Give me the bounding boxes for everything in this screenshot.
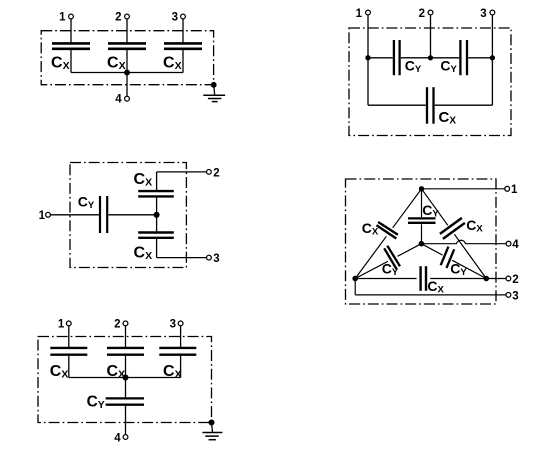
terminal 4 fig4 <box>506 241 511 246</box>
svg-text:3: 3 <box>172 11 178 23</box>
capacitor C_X left edge fig4 <box>378 222 398 235</box>
terminal 1 fig5 <box>66 321 71 326</box>
wire node to terminal 4 <box>126 73 128 97</box>
wire terminal1 down to node1 fig2 <box>367 15 369 58</box>
ground fig5 <box>202 432 222 434</box>
svg-text:CX: CX <box>107 54 126 72</box>
terminal 2 fig2 <box>428 10 433 15</box>
wire apex to C_X left (triangle edge) <box>393 189 422 228</box>
svg-text:CX: CX <box>439 109 457 127</box>
wire C_Y top to center node <box>421 224 423 244</box>
capacitor C_X fig2 <box>426 87 428 124</box>
apex node fig4 <box>419 187 423 191</box>
svg-text:CY: CY <box>87 394 105 412</box>
wire C1 bottom to bus <box>70 49 72 73</box>
terminal 4 fig5 <box>123 435 128 440</box>
svg-text:CY: CY <box>450 261 467 279</box>
svg-text:2: 2 <box>213 167 219 179</box>
wire apex to C_Y top <box>421 189 423 217</box>
wire apex to C_X right (triangle edge) <box>422 189 448 226</box>
svg-text:CY: CY <box>440 58 457 76</box>
wire C_X top up fig3 <box>156 172 158 191</box>
wire terminal1 to C_Y fig3 <box>51 214 100 216</box>
bottom-right vertex node fig4 <box>484 276 488 280</box>
svg-text:2: 2 <box>419 8 425 20</box>
capacitor C_X (left, fig1) <box>52 42 90 45</box>
wire node3 down fig2 <box>491 58 493 105</box>
wire center node to terminal 4 with hop fig4 <box>421 240 506 243</box>
wire terminal3 to C3 top <box>182 19 184 43</box>
wire C_Y right to bottom-right vertex fig4 <box>452 260 486 278</box>
terminal 2 fig5 <box>123 321 128 326</box>
wire node1 to C_Y left fig2 <box>368 57 393 59</box>
capacitor C_Y right fig2 <box>459 40 461 75</box>
terminal 1 fig4 <box>505 186 510 191</box>
junction node fig5 <box>123 375 128 380</box>
capacitor C_X bottom fig3 <box>138 231 174 233</box>
terminal 1 <box>69 14 74 19</box>
svg-text:CX: CX <box>163 54 182 72</box>
wire terminal1 to C1 top <box>70 19 72 43</box>
svg-text:1: 1 <box>511 184 518 196</box>
svg-text:CY: CY <box>405 58 422 76</box>
wire C_X right to bottom-right vertex <box>454 234 486 278</box>
terminal 3 fig2 <box>490 10 495 15</box>
capacitor C_X top fig3 <box>138 190 174 192</box>
wire C1 to bus fig5 <box>68 355 70 378</box>
wire C_Y to terminal 4 fig5 <box>125 405 127 434</box>
capacitor C_Y lower-left fig4 <box>387 246 400 267</box>
wire node to C_Y fig5 <box>125 378 127 398</box>
node 1 junction fig2 <box>366 56 370 60</box>
svg-text:3: 3 <box>170 319 176 331</box>
center node fig4 <box>419 242 423 246</box>
terminal 4 <box>125 96 130 101</box>
terminal 1 fig3 <box>46 212 51 217</box>
capacitor C_Y lower-right fig4 <box>441 247 449 266</box>
terminal 3 fig5 <box>178 321 183 326</box>
wire C_X left to bottom-left vertex <box>355 236 386 278</box>
capacitor C_X middle fig5 <box>107 347 144 349</box>
ground stem fig5 <box>212 423 213 432</box>
wire bottom left to C_X fig2 <box>368 104 426 106</box>
center node fig3 <box>154 212 159 217</box>
node 2 junction fig2 <box>429 56 433 60</box>
svg-text:CX: CX <box>362 220 379 238</box>
wire to terminal 2 fig3 <box>157 171 207 173</box>
wire terminal2 to C2 top <box>126 19 128 43</box>
shield ground node fig5 <box>209 420 214 425</box>
svg-text:1: 1 <box>58 319 65 331</box>
wire between C_Y caps fig2 <box>401 57 459 59</box>
svg-text:3: 3 <box>480 8 486 20</box>
terminal 2 <box>125 14 130 19</box>
svg-text:CY: CY <box>422 202 439 220</box>
wire C2 to node fig5 <box>125 355 127 378</box>
wire bottom-right vertex to terminal 2 fig4 <box>486 278 506 280</box>
wire C3 to bus fig5 <box>180 355 182 378</box>
wire C_Y left to bottom-left vertex fig4 <box>355 261 388 278</box>
shield ground node fig1 <box>211 83 216 88</box>
terminal 3 fig4 <box>506 293 511 298</box>
shield box (figure 1 enclosure) <box>41 31 213 85</box>
capacitor C_Y fig5 <box>106 397 144 399</box>
node 3 junction fig2 <box>490 56 494 60</box>
wire bottom-left vertex to C_X bottom <box>355 278 416 280</box>
svg-text:2: 2 <box>115 11 121 23</box>
capacitor C_Y left fig2 <box>393 40 395 75</box>
svg-text:CX: CX <box>163 363 182 381</box>
wire terminal3 down to node3 fig2 <box>491 15 493 58</box>
wire C_X bottom to bottom-right vertex <box>430 278 486 280</box>
wire apex to terminal 1 fig4 <box>422 188 505 190</box>
wire C_Y to center node fig3 <box>108 214 156 216</box>
terminal 2 fig3 <box>207 170 212 175</box>
wire bottom-left vertex down fig4 <box>354 279 356 295</box>
wire terminal3 to C3 fig5 <box>180 326 182 347</box>
wire to terminal 3 fig3 <box>157 257 207 259</box>
shield box (figure 4 enclosure) <box>346 179 497 304</box>
bottom-left vertex node fig4 <box>353 276 357 280</box>
wire C_X to bottom right fig2 <box>435 104 493 106</box>
svg-text:CX: CX <box>466 217 483 235</box>
wire node down to C_X bottom fig3 <box>156 215 158 232</box>
shield box (figure 5 enclosure) <box>38 337 212 423</box>
svg-text:CY: CY <box>78 193 95 211</box>
wire bottom rail to terminal 3 fig4 <box>355 294 506 296</box>
svg-text:4: 4 <box>115 94 122 106</box>
capacitor C_Y fig3 <box>99 196 101 233</box>
ground fig1 <box>203 94 225 96</box>
terminal 1 fig2 <box>366 10 371 15</box>
wire C_X bottom down fig3 <box>156 239 158 258</box>
junction node fig1 <box>125 70 130 75</box>
svg-text:1: 1 <box>39 210 46 222</box>
wire C2 bottom to bus <box>126 49 128 73</box>
svg-text:3: 3 <box>213 253 219 265</box>
capacitor C_X bottom edge fig4 <box>419 266 421 291</box>
common bus wire fig1 <box>71 72 183 74</box>
wire C_Y right to node3 fig2 <box>468 57 492 59</box>
ground stem fig1 <box>213 85 216 95</box>
capacitor C_X (middle, fig1) <box>108 42 146 45</box>
wire terminal2 down to node2 fig2 <box>430 15 432 58</box>
wire center node to C_Y right fig4 <box>421 244 442 255</box>
terminal 3 fig3 <box>207 255 212 260</box>
wire C3 bottom to bus <box>182 49 184 73</box>
wire terminal1 to C1 fig5 <box>68 326 70 347</box>
svg-text:1: 1 <box>59 11 66 23</box>
svg-text:2: 2 <box>114 319 120 331</box>
svg-text:CY: CY <box>382 260 399 278</box>
svg-text:CX: CX <box>51 54 70 72</box>
wire node up to C_X top fig3 <box>156 197 158 215</box>
capacitor C_X (right, fig1) <box>164 42 202 45</box>
svg-text:CX: CX <box>427 278 444 296</box>
wire node1 down fig2 <box>367 58 369 105</box>
svg-text:4: 4 <box>114 432 121 444</box>
common bus wire fig5 <box>69 377 181 379</box>
svg-text:1: 1 <box>356 8 363 20</box>
svg-text:CX: CX <box>50 363 69 381</box>
svg-text:CX: CX <box>107 363 126 381</box>
svg-text:4: 4 <box>512 239 519 251</box>
terminal 3 <box>181 14 186 19</box>
shield box (figure 2 enclosure) <box>349 28 511 136</box>
svg-text:CX: CX <box>134 171 153 189</box>
svg-text:3: 3 <box>512 290 518 302</box>
capacitor C_X left fig5 <box>50 347 87 349</box>
capacitor C_X right edge fig4 <box>440 218 462 234</box>
shield box (figure 3 enclosure) <box>70 163 186 268</box>
capacitor C_Y top fig4 <box>408 217 436 219</box>
svg-text:CX: CX <box>134 245 153 263</box>
wire center node to C_Y left fig4 <box>398 244 422 257</box>
capacitor C_X right fig5 <box>159 347 196 349</box>
terminal 2 fig4 <box>506 276 511 281</box>
wire terminal2 to C2 fig5 <box>125 326 127 347</box>
svg-text:2: 2 <box>512 274 518 286</box>
